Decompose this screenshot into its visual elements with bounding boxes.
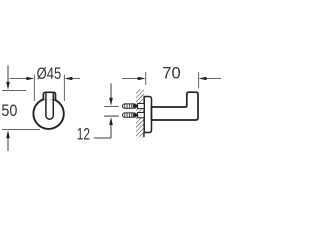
svg-text:12: 12 xyxy=(77,125,90,144)
svg-text:50: 50 xyxy=(1,102,17,120)
svg-text:Ø45: Ø45 xyxy=(37,64,62,83)
svg-text:70: 70 xyxy=(162,64,180,83)
